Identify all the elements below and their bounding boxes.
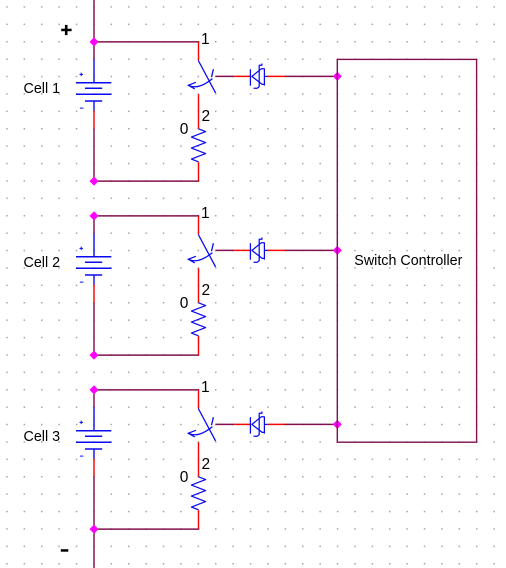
wire switch 3 pin1 (red) xyxy=(198,390,200,409)
wire branch 3 top rail xyxy=(94,389,199,391)
battery Cell 3 xyxy=(76,407,111,458)
wire branch 1 bottom rail xyxy=(94,180,199,182)
wire switch 1 pin1 (red) xyxy=(198,42,200,61)
wire battery 1 bottom pin (red) xyxy=(93,111,95,129)
junction bus top of branch 3 xyxy=(90,386,98,394)
diode D2 (opto/control element) xyxy=(250,238,267,263)
svg-text:Cell 1: Cell 1 xyxy=(24,81,61,97)
subcircuit box Switch Controller xyxy=(337,59,476,442)
wire bus above battery 1 xyxy=(93,42,95,60)
wire bus above battery 2 xyxy=(93,216,95,234)
svg-text:0: 0 xyxy=(180,121,189,138)
switch SW2 (SPDT) xyxy=(188,235,215,267)
wire switch 2 pin1 (red) xyxy=(198,216,200,235)
wire bus below battery 1 (dark) xyxy=(93,128,95,181)
wire diode D1 right pin (red) xyxy=(268,75,285,77)
wire bus below battery 3 (dark) xyxy=(93,476,95,529)
junction controller input 1 xyxy=(333,72,341,80)
svg-text:Cell 3: Cell 3 xyxy=(24,429,61,445)
wire branch 2 bottom rail xyxy=(94,354,199,356)
junction bus bottom of branch 2 xyxy=(90,351,98,359)
wire branch 1 top rail xyxy=(94,41,199,43)
svg-text:1: 1 xyxy=(201,379,210,396)
junction bus bottom of branch 1 xyxy=(90,177,98,185)
junction bus top of branch 1 xyxy=(90,38,98,46)
wire switch 2 pin2 (red) xyxy=(198,268,200,303)
switch SW1 (SPDT) xyxy=(188,61,215,93)
wire switch 3 pin2 (red) xyxy=(198,442,200,477)
terminal + (battery stack positive) xyxy=(61,25,71,35)
switch SW3 (SPDT) xyxy=(188,409,215,441)
junction controller input 3 xyxy=(333,420,341,428)
svg-text:2: 2 xyxy=(202,456,211,473)
wire diode D2 to controller (dark) xyxy=(285,249,337,251)
wire resistor 3 bottom pin (red) xyxy=(198,510,200,529)
svg-text:Cell 2: Cell 2 xyxy=(24,255,61,271)
wire resistor 1 bottom pin (red) xyxy=(198,162,200,181)
diode D1 (opto/control element) xyxy=(250,64,267,89)
wire bus above battery 3 xyxy=(93,390,95,408)
wire battery 3 bottom pin (red) xyxy=(93,459,95,477)
wire diode D2 left pin (red) xyxy=(234,249,250,251)
wire battery 2 bottom pin (red) xyxy=(93,285,95,303)
junction controller input 2 xyxy=(333,246,341,254)
junction bus top of branch 2 xyxy=(90,212,98,220)
wire diode D1 to controller (dark) xyxy=(285,75,337,77)
svg-text:1: 1 xyxy=(201,205,210,222)
resistor R2 zigzag xyxy=(191,303,205,336)
wire resistor 2 bottom pin (red) xyxy=(198,336,200,355)
resistor R3 zigzag xyxy=(191,477,205,510)
wire branch 3 bottom rail xyxy=(94,528,199,530)
wire branch 2 top rail xyxy=(94,215,199,217)
wire switch 1 pin2 (red) xyxy=(198,94,200,129)
svg-text:2: 2 xyxy=(202,282,211,299)
svg-text:2: 2 xyxy=(202,108,211,125)
wire bus top stub xyxy=(93,0,95,42)
resistor R1 zigzag xyxy=(191,129,205,162)
wire diode D3 to controller (dark) xyxy=(285,423,337,425)
wire diode D2 right pin (red) xyxy=(268,249,285,251)
wire bus below battery 2 (dark) xyxy=(93,302,95,355)
diode D3 (opto/control element) xyxy=(250,412,267,437)
svg-text:0: 0 xyxy=(180,295,189,312)
wire diode D3 right pin (red) xyxy=(268,423,285,425)
junction bus bottom of branch 3 xyxy=(90,525,98,533)
svg-text:Switch Controller: Switch Controller xyxy=(354,253,462,269)
wire diode D1 left pin (red) xyxy=(234,75,250,77)
wire bus bottom stub xyxy=(93,529,95,568)
wire SW1 pole to diode (dark) xyxy=(216,75,235,77)
svg-text:0: 0 xyxy=(180,469,189,486)
terminal - (battery stack negative) xyxy=(61,549,69,552)
wire SW3 pole to diode (dark) xyxy=(216,423,235,425)
wire diode D3 left pin (red) xyxy=(234,423,250,425)
wire SW2 pole to diode (dark) xyxy=(216,249,235,251)
svg-text:1: 1 xyxy=(201,31,210,48)
battery Cell 2 xyxy=(76,233,111,284)
battery Cell 1 xyxy=(76,59,111,110)
